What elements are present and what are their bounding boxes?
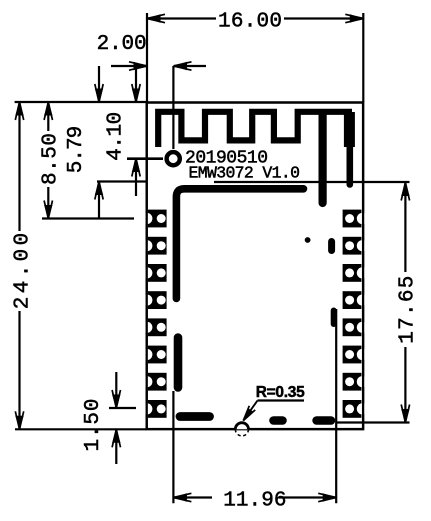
svg-text:17.65: 17.65 (397, 276, 420, 344)
svg-text:R=0.35: R=0.35 (256, 384, 305, 401)
svg-text:5.79: 5.79 (65, 126, 88, 174)
svg-text:11.96: 11.96 (223, 490, 286, 513)
svg-text:1.50: 1.50 (82, 399, 105, 452)
svg-text:16.00: 16.00 (218, 11, 282, 34)
svg-text:EMW3072 V1.0: EMW3072 V1.0 (189, 164, 301, 183)
svg-text:2.00: 2.00 (97, 33, 147, 56)
svg-text:8.50: 8.50 (40, 133, 63, 185)
svg-text:24.00: 24.00 (12, 233, 35, 310)
svg-text:4.10: 4.10 (105, 112, 128, 161)
